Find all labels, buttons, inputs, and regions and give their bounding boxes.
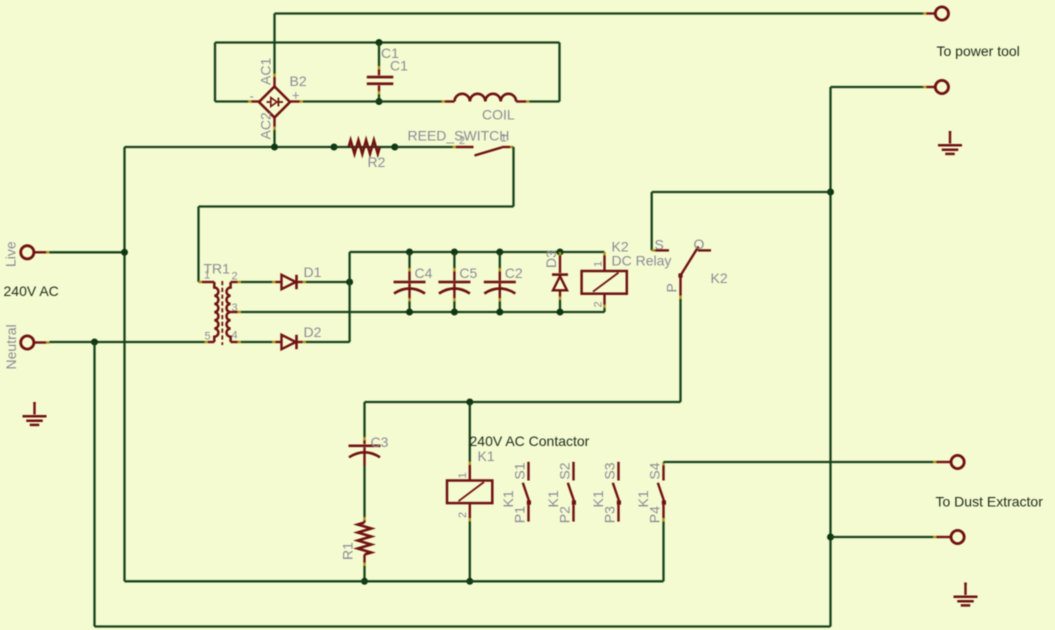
svg-text:Neutral: Neutral (3, 324, 19, 369)
node AC2 junction (271, 144, 278, 151)
svg-text:To Dust Extractor: To Dust Extractor (936, 494, 1044, 510)
wire AC2 down to reed rail (273, 130, 275, 147)
node R2 left junction (331, 144, 338, 151)
node rectifier junction (346, 279, 353, 286)
capacitor C3 (349, 402, 381, 466)
svg-text:R1: R1 (340, 542, 356, 560)
wire neutral to TR1 pin 5 (50, 341, 205, 343)
ground left (33, 402, 35, 404)
svg-text:C5: C5 (459, 265, 477, 281)
svg-text:R2: R2 (368, 154, 386, 170)
capacitor C4 (394, 249, 426, 316)
contactor coil K1 (447, 462, 492, 522)
contactor contact K1 P2 (545, 462, 576, 523)
svg-text:1: 1 (204, 270, 210, 282)
terminal to dust extractor pin 1 (933, 461, 937, 463)
svg-text:K1: K1 (590, 490, 606, 507)
terminal Neutral (21, 336, 34, 349)
svg-text:2: 2 (593, 301, 605, 307)
svg-text:S4: S4 (646, 462, 662, 479)
svg-text:5: 5 (205, 331, 211, 343)
svg-text:K1: K1 (478, 448, 495, 464)
wire pole across to C3 (365, 401, 681, 403)
capacitor C2 (484, 249, 516, 316)
svg-text:AC2: AC2 (258, 112, 274, 139)
wire to power tool pin 2 (831, 86, 924, 88)
svg-text:K1: K1 (635, 490, 651, 507)
svg-text:To power tool: To power tool (937, 43, 1020, 59)
svg-text:S1: S1 (511, 462, 527, 479)
svg-text:K1: K1 (500, 490, 516, 507)
wire rectifier vertical link (348, 252, 350, 342)
svg-text:S2: S2 (556, 462, 572, 479)
wire relay pin2 elbow (603, 308, 605, 312)
wire C3 to R1 (363, 466, 365, 517)
diode D3 (552, 249, 568, 316)
svg-text:240V AC: 240V AC (4, 283, 59, 299)
wire junction down to K1 pin1 (469, 402, 471, 462)
svg-text:D1: D1 (304, 264, 322, 280)
wire rail left of bridge (215, 100, 248, 102)
svg-text:-: - (250, 89, 254, 104)
svg-text:S: S (655, 237, 664, 253)
wire outer bottom (95, 625, 831, 627)
relay contact K2 SPDT (652, 247, 711, 300)
wire reed switch down (512, 147, 514, 207)
wire R2 to reed switch (395, 146, 453, 148)
wire S4 to dust extractor terminal (664, 461, 934, 463)
node right rail S junction (827, 189, 834, 196)
contactor contact K1 P4 (635, 462, 666, 523)
svg-text:AC1: AC1 (258, 58, 274, 85)
wire S contact drop (651, 192, 653, 250)
wire rail bridge to C1 to coil (303, 100, 442, 102)
svg-text:1: 1 (457, 472, 469, 478)
node neutral junction (91, 339, 98, 346)
svg-text:2: 2 (459, 135, 465, 147)
wire bottom rail (125, 580, 664, 582)
wire top rail to power tool (275, 12, 924, 14)
wire neutral down (93, 342, 95, 627)
wire under R2 (334, 146, 395, 148)
wire P4 down (662, 522, 664, 582)
capacitor C5 (438, 249, 470, 316)
resistor R1 (358, 517, 372, 566)
svg-text:O: O (694, 236, 705, 252)
wire left rail (123, 147, 125, 581)
svg-text:P: P (664, 283, 680, 292)
wire down to TR1 pin 1 (197, 207, 199, 283)
svg-text:240V AC Contactor: 240V AC Contactor (470, 433, 590, 449)
wire snubber box left (214, 43, 216, 102)
wire TR1 pin2 to D1 (241, 281, 272, 283)
wire K1 pin2 to bottom rail (469, 522, 471, 582)
svg-text:+: + (292, 88, 300, 103)
wire right rail (829, 87, 831, 627)
terminal Live (21, 246, 34, 259)
transformer TR1 (199, 281, 242, 345)
diode D1 (272, 275, 306, 289)
terminal to power tool pin 1 (923, 12, 927, 14)
svg-text:1: 1 (593, 261, 605, 267)
inductor COIL (442, 94, 530, 102)
svg-text:Live: Live (3, 241, 19, 267)
wire vertical into bridge AC1 (273, 14, 275, 74)
contactor contact K1 P3 (590, 462, 621, 523)
wire R1 to bottom rail (363, 566, 365, 581)
wire live to rail (50, 251, 125, 253)
svg-text:2: 2 (457, 512, 469, 518)
svg-text:D3: D3 (543, 250, 559, 268)
svg-text:C3: C3 (371, 434, 389, 450)
bridge rectifier B2 (248, 74, 303, 131)
wire D2 to vertical link (306, 341, 350, 343)
wire TR1 pin4 to D2 (241, 341, 272, 343)
wire to dust extractor pin 2 (831, 536, 934, 538)
node R2 right junction (391, 144, 398, 151)
svg-text:4: 4 (232, 330, 238, 342)
wire DC minus rail TR1 pin3 (241, 311, 605, 313)
svg-text:DC Relay: DC Relay (612, 253, 672, 269)
contactor contact K1 P1 (500, 462, 531, 523)
node contactor coil junction (466, 399, 473, 406)
capacitor C1 (367, 39, 394, 105)
svg-text:C4: C4 (415, 265, 433, 281)
svg-text:K2: K2 (711, 270, 728, 286)
node right rail dust junction (827, 534, 834, 541)
terminal to dust extractor pin 2 (933, 536, 937, 538)
wire pole down (679, 299, 681, 402)
svg-text:3: 3 (232, 302, 238, 314)
node R1 bottom junction (361, 578, 368, 585)
ground power tool (949, 131, 951, 133)
node K1 bottom junction (466, 578, 473, 585)
wire D1 to junction (306, 281, 350, 283)
wire coil to box right (530, 100, 560, 102)
svg-text:1: 1 (501, 133, 507, 145)
reed switch S1 (453, 147, 514, 156)
svg-text:K1: K1 (545, 490, 561, 507)
svg-text:C2: C2 (505, 265, 523, 281)
diode D2 (272, 335, 306, 349)
relay coil K2 (582, 252, 627, 308)
wire DC plus rail (350, 251, 605, 253)
svg-text:COIL: COIL (482, 107, 515, 123)
svg-text:S3: S3 (601, 462, 617, 479)
svg-text:2: 2 (232, 271, 238, 283)
ground dust extractor (964, 583, 966, 585)
wire S branch across (652, 191, 831, 193)
resistor R2 (349, 140, 380, 154)
wire snubber box right (558, 43, 560, 102)
svg-text:D2: D2 (304, 324, 322, 340)
node live junction (121, 249, 128, 256)
wire reed rail left segment (125, 146, 335, 148)
wire snubber box top (215, 41, 560, 43)
wire reed bottom across (199, 205, 514, 207)
terminal to power tool pin 2 (923, 86, 927, 88)
svg-text:C1: C1 (390, 58, 408, 74)
